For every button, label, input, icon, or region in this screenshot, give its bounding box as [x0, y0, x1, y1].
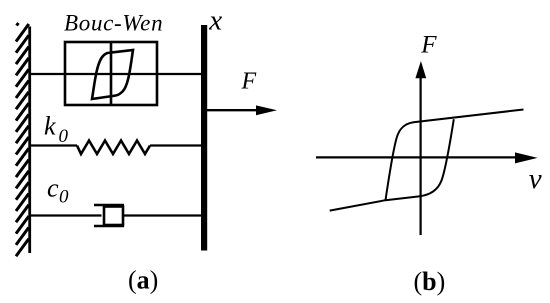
- wall hatching: [16, 23, 29, 256]
- wire through Bouc-Wen box: [65, 73, 157, 75]
- svg-text:v: v: [529, 163, 542, 195]
- v axis arrowhead: [415, 61, 426, 78]
- spring k0 zigzag: [77, 141, 150, 155]
- damper cylinder bottom flange: [94, 225, 124, 228]
- hysteresis curve upper branch: [386, 110, 524, 201]
- spring wire left: [29, 144, 77, 146]
- h axis (b): [316, 156, 518, 158]
- wire Bouc-Wen box to bar: [157, 73, 203, 75]
- hysteresis curve lower branch: [330, 119, 454, 210]
- wall line: [28, 27, 31, 254]
- svg-text:k: k: [44, 112, 56, 141]
- force arrow line: [207, 109, 259, 111]
- Bouc-Wen box vertical center line: [110, 42, 113, 105]
- svg-text:c: c: [47, 174, 59, 203]
- force arrowhead: [256, 105, 277, 115]
- Bouc-Wen hysteresis loop icon: [92, 50, 133, 99]
- v axis (b): [420, 74, 422, 235]
- mass bar: [201, 25, 207, 251]
- svg-text:(b): (b): [414, 267, 446, 296]
- svg-text:(a): (a): [128, 266, 158, 295]
- damper wire left: [29, 214, 102, 216]
- damper piston box: [104, 207, 123, 226]
- damper cylinder top flange: [94, 204, 124, 207]
- damper wire right: [123, 214, 203, 216]
- svg-text:x: x: [208, 5, 222, 37]
- spring wire right: [150, 144, 203, 146]
- svg-text:0: 0: [59, 186, 69, 207]
- wire wall to Bouc-Wen box: [29, 73, 65, 75]
- h axis arrowhead: [515, 152, 538, 163]
- Bouc-Wen box: [65, 42, 157, 105]
- svg-text:F: F: [420, 32, 437, 59]
- svg-text:F: F: [241, 69, 257, 95]
- svg-text:0: 0: [59, 126, 69, 147]
- svg-text:Bouc-Wen: Bouc-Wen: [64, 11, 163, 36]
